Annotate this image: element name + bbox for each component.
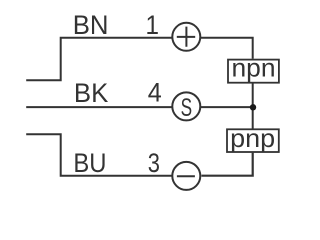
npn box — [228, 60, 279, 83]
svg-text:pnp: pnp — [230, 123, 275, 153]
svg-text:1: 1 — [145, 10, 159, 40]
svg-text:S: S — [181, 94, 193, 122]
output S (signal circle) — [172, 92, 200, 121]
svg-text:3: 3 — [148, 148, 160, 178]
wire pnp to BU rail — [202, 153, 253, 176]
svg-text:BK: BK — [74, 78, 108, 108]
junction node — [250, 104, 256, 110]
output + (plus circle) — [172, 23, 200, 51]
wire BK — [26, 106, 171, 108]
wire BU left stub with step down — [26, 134, 171, 176]
svg-text:BN: BN — [73, 10, 109, 40]
svg-text:BU: BU — [73, 148, 106, 178]
wire npn to junction to pnp — [252, 83, 254, 129]
pnp box — [227, 129, 279, 152]
svg-text:4: 4 — [148, 78, 162, 108]
output - (minus circle) — [172, 162, 200, 190]
wire plus-circle to npn — [201, 38, 253, 59]
svg-text:npn: npn — [232, 52, 276, 82]
wire BN left stub with step up — [26, 38, 171, 80]
wire S to junction — [201, 106, 253, 108]
